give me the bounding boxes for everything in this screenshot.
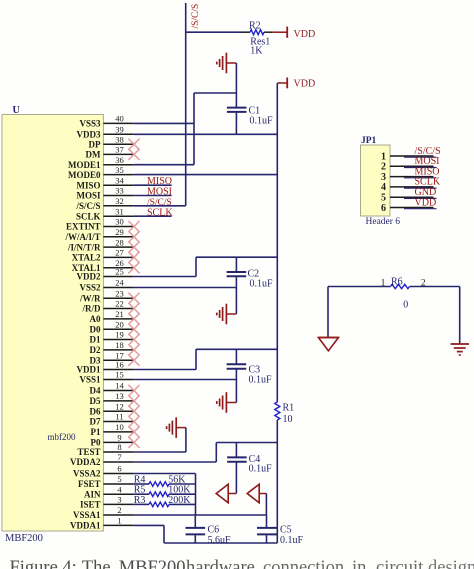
svg-text:22: 22 xyxy=(115,299,124,309)
svg-text:ISET: ISET xyxy=(80,500,101,510)
svg-text:/S/C/S: /S/C/S xyxy=(191,4,201,29)
svg-text:VSSA2: VSSA2 xyxy=(73,469,101,479)
svg-text:VDD: VDD xyxy=(415,197,437,208)
svg-text:VSS3: VSS3 xyxy=(79,119,101,129)
svg-text:0.1uF: 0.1uF xyxy=(280,535,304,546)
svg-text:D1: D1 xyxy=(90,335,101,345)
svg-text:JP1: JP1 xyxy=(361,136,377,146)
svg-text:32: 32 xyxy=(115,196,124,206)
svg-text:19: 19 xyxy=(115,330,124,340)
svg-text:0: 0 xyxy=(403,299,408,310)
svg-text:VDDA1: VDDA1 xyxy=(70,521,101,531)
svg-text:20: 20 xyxy=(115,319,124,329)
svg-text:R2: R2 xyxy=(249,21,261,32)
svg-text:16: 16 xyxy=(115,360,124,370)
svg-text:Figure 4:: Figure 4: xyxy=(10,558,77,569)
svg-text:SCLK: SCLK xyxy=(147,207,173,218)
svg-text:8: 8 xyxy=(117,442,121,452)
svg-text:15: 15 xyxy=(115,370,124,380)
svg-text:21: 21 xyxy=(115,309,124,319)
svg-text:2: 2 xyxy=(117,505,121,515)
svg-text:5.6uF: 5.6uF xyxy=(208,535,232,546)
svg-text:28: 28 xyxy=(115,237,124,247)
svg-text:12: 12 xyxy=(115,401,124,411)
svg-text:1: 1 xyxy=(381,278,386,288)
svg-text:3: 3 xyxy=(117,495,121,505)
svg-text:27: 27 xyxy=(115,248,124,258)
svg-text:25: 25 xyxy=(115,267,124,277)
svg-text:VDD3: VDD3 xyxy=(77,130,101,140)
svg-text:D7: D7 xyxy=(90,417,101,427)
svg-text:0.1uF: 0.1uF xyxy=(250,278,274,289)
svg-text:4: 4 xyxy=(117,484,122,494)
svg-text:5: 5 xyxy=(117,474,121,484)
svg-text:MBF200: MBF200 xyxy=(5,533,43,544)
svg-text:10: 10 xyxy=(283,414,293,425)
svg-text:38: 38 xyxy=(115,134,124,144)
svg-text:R6: R6 xyxy=(391,276,403,287)
svg-text:Header 6: Header 6 xyxy=(366,217,401,227)
svg-text:1: 1 xyxy=(117,516,121,526)
svg-text:D5: D5 xyxy=(90,396,101,406)
svg-text:34: 34 xyxy=(115,175,124,185)
svg-text:EXTINT: EXTINT xyxy=(66,222,101,232)
svg-text:39: 39 xyxy=(115,125,124,135)
svg-text:/S/C/S: /S/C/S xyxy=(75,201,100,211)
svg-text:MOSI: MOSI xyxy=(76,191,101,201)
svg-text:FSET: FSET xyxy=(78,479,101,489)
svg-text:VDDA2: VDDA2 xyxy=(70,457,101,467)
svg-text:in: in xyxy=(352,558,366,569)
svg-text:D6: D6 xyxy=(90,406,101,416)
svg-text:DM: DM xyxy=(86,150,101,160)
svg-text:VDD: VDD xyxy=(294,29,316,40)
svg-text:SCLK: SCLK xyxy=(76,211,101,221)
svg-text:6: 6 xyxy=(381,203,386,214)
svg-text:/I/N/T/R: /I/N/T/R xyxy=(67,242,101,252)
svg-text:C5: C5 xyxy=(280,524,292,535)
svg-text:mbf200: mbf200 xyxy=(48,432,76,442)
svg-text:14: 14 xyxy=(115,381,124,391)
svg-text:P1: P1 xyxy=(91,427,101,437)
svg-text:MBF200: MBF200 xyxy=(119,558,186,569)
svg-text:33: 33 xyxy=(115,186,124,196)
svg-text:VDD1: VDD1 xyxy=(77,365,101,375)
svg-text:hardware: hardware xyxy=(186,558,255,569)
svg-text:2: 2 xyxy=(421,278,426,288)
svg-text:R3: R3 xyxy=(134,495,146,506)
svg-text:DP: DP xyxy=(89,139,101,149)
svg-text:AIN: AIN xyxy=(84,489,101,499)
svg-text:31: 31 xyxy=(115,206,124,216)
svg-text:/R/D: /R/D xyxy=(82,304,102,314)
svg-text:0.1uF: 0.1uF xyxy=(249,375,273,386)
svg-text:11: 11 xyxy=(115,412,123,422)
svg-text:C6: C6 xyxy=(208,524,220,535)
svg-text:23: 23 xyxy=(115,288,124,298)
svg-text:18: 18 xyxy=(115,340,124,350)
svg-text:40: 40 xyxy=(115,114,124,124)
svg-text:U: U xyxy=(13,105,20,116)
svg-text:VDD: VDD xyxy=(294,79,316,90)
svg-text:1K: 1K xyxy=(250,46,263,57)
svg-text:D0: D0 xyxy=(90,324,101,334)
svg-text:design: design xyxy=(428,558,474,569)
svg-text:13: 13 xyxy=(115,391,124,401)
svg-text:circuit: circuit xyxy=(376,558,424,569)
svg-text:29: 29 xyxy=(115,227,124,237)
svg-text:/W/A/I/T: /W/A/I/T xyxy=(64,232,100,242)
svg-text:6: 6 xyxy=(117,464,121,474)
svg-text:7: 7 xyxy=(117,452,121,462)
svg-text:10: 10 xyxy=(115,422,124,432)
svg-text:MODE0: MODE0 xyxy=(68,170,101,180)
svg-text:TEST: TEST xyxy=(77,447,100,457)
svg-text:MOSI: MOSI xyxy=(147,187,172,198)
svg-text:24: 24 xyxy=(115,278,124,288)
svg-text:D4: D4 xyxy=(90,386,101,396)
svg-text:VSSA1: VSSA1 xyxy=(73,510,101,520)
svg-text:D2: D2 xyxy=(90,345,101,355)
svg-text:MISO: MISO xyxy=(76,180,100,190)
svg-text:35: 35 xyxy=(115,165,124,175)
svg-text:9: 9 xyxy=(117,433,121,443)
svg-text:37: 37 xyxy=(115,145,124,155)
svg-text:A0: A0 xyxy=(90,314,101,324)
svg-text:VDD2: VDD2 xyxy=(77,272,101,282)
svg-text:0.1uF: 0.1uF xyxy=(249,463,273,474)
svg-text:MISO: MISO xyxy=(147,176,172,187)
svg-text:XTAL2: XTAL2 xyxy=(72,253,101,263)
svg-text:VSS2: VSS2 xyxy=(79,283,101,293)
svg-text:/W/R: /W/R xyxy=(79,293,101,303)
svg-text:0.1uF: 0.1uF xyxy=(250,115,274,126)
svg-text:P0: P0 xyxy=(91,438,101,448)
svg-text:200K: 200K xyxy=(168,495,191,506)
svg-text:30: 30 xyxy=(115,217,124,227)
svg-text:VSS1: VSS1 xyxy=(79,375,101,385)
svg-text:R1: R1 xyxy=(283,403,295,414)
svg-text:36: 36 xyxy=(115,155,124,165)
svg-text:connection: connection xyxy=(263,558,344,569)
svg-text:The: The xyxy=(82,558,111,569)
svg-text:MODE1: MODE1 xyxy=(68,160,101,170)
